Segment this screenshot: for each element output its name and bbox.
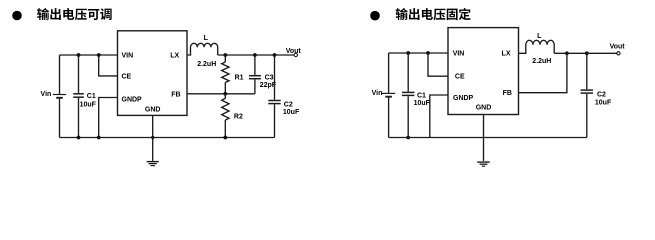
terminal Vout xyxy=(294,53,297,56)
svg-text:LX: LX xyxy=(170,52,179,59)
battery source Vin (right) xyxy=(382,53,395,138)
svg-text:C2: C2 xyxy=(597,91,606,98)
svg-text:GND: GND xyxy=(145,106,161,113)
label C2 xyxy=(284,101,293,108)
label 2.2uH xyxy=(197,61,216,68)
pin label LX xyxy=(170,52,179,59)
pin label GNDP xyxy=(122,97,143,104)
pin label LX (U2) xyxy=(502,50,511,57)
svg-text:L: L xyxy=(204,35,209,42)
ground symbol (right) xyxy=(477,162,490,166)
node: output-R1 junction xyxy=(223,53,227,57)
svg-text:R2: R2 xyxy=(234,114,243,121)
node: VIN-C1 junction xyxy=(77,53,81,57)
node: output-FB junction (right) xyxy=(565,51,569,55)
label L (right) xyxy=(537,33,542,40)
wire: GNDP branch (right) xyxy=(430,95,448,138)
svg-text:Vin: Vin xyxy=(41,91,52,98)
wire: output net to Vout xyxy=(218,54,294,56)
node: VIN-CE junction xyxy=(97,53,101,57)
svg-text:CE: CE xyxy=(455,74,465,81)
capacitor C1 xyxy=(73,55,84,138)
node: output-C2 junction (right) xyxy=(585,51,589,55)
svg-text:2.2uH: 2.2uH xyxy=(197,61,216,68)
wire: GND pin to earth xyxy=(152,115,154,160)
capacitor C3 xyxy=(249,55,261,94)
pin label FB xyxy=(171,91,180,98)
label Vin xyxy=(41,91,52,98)
node: FB-R junction xyxy=(223,92,227,96)
svg-text:LX: LX xyxy=(502,50,511,57)
label C1 (right) xyxy=(417,92,426,99)
svg-text:C1: C1 xyxy=(87,93,96,100)
svg-text:C3: C3 xyxy=(265,74,274,81)
label 10uF (right C1) xyxy=(414,100,431,107)
inductor L xyxy=(187,43,218,55)
svg-text:Vin: Vin xyxy=(372,90,383,97)
svg-text:10uF: 10uF xyxy=(283,109,300,116)
svg-text:L: L xyxy=(537,33,542,40)
svg-text:CE: CE xyxy=(122,74,132,81)
label Vin (right) xyxy=(372,90,383,97)
resistor R1 xyxy=(222,55,229,94)
svg-text:10uF: 10uF xyxy=(80,101,97,108)
pin label VIN (U2) xyxy=(453,50,465,57)
svg-text:Vout: Vout xyxy=(610,43,626,50)
label Vout (right) xyxy=(610,43,626,50)
label 10uF xyxy=(80,101,97,108)
svg-text:Vout: Vout xyxy=(286,48,302,55)
label 22pF xyxy=(260,82,277,89)
wire: GNDP branch xyxy=(99,98,118,138)
IC U1 box xyxy=(118,31,188,116)
right section title: 输出电压固定 xyxy=(396,8,471,20)
pin label VIN xyxy=(122,52,134,59)
node: GNDP-rail junction xyxy=(97,136,101,140)
svg-text:10uF: 10uF xyxy=(595,100,612,107)
label 10uF (C2) xyxy=(283,109,300,116)
svg-text:VIN: VIN xyxy=(122,52,134,59)
battery source Vin xyxy=(53,55,66,138)
label C1 xyxy=(87,93,96,100)
label 10uF (right C2) xyxy=(595,100,612,107)
right section bullet xyxy=(370,11,380,21)
pin label GND (U2) xyxy=(476,104,492,111)
node: VIN-CE junction (right) xyxy=(426,51,430,55)
svg-text:FB: FB xyxy=(503,90,512,97)
capacitor C2 xyxy=(268,55,280,138)
left section title: 输出电压可调 xyxy=(37,8,112,20)
wire: CE branch xyxy=(99,55,118,76)
pin label GNDP (U2) xyxy=(453,95,474,102)
node: C1-rail junction (right) xyxy=(406,136,410,140)
node: C1-rail junction xyxy=(77,136,81,140)
resistor R2 xyxy=(222,94,229,138)
label 2.2uH (right) xyxy=(532,58,551,65)
wire: VIN input rail top (right) xyxy=(389,52,448,54)
pin label FB (U2) xyxy=(503,90,512,97)
pin label CE xyxy=(122,74,132,81)
left section bullet xyxy=(12,11,22,21)
node: VIN-C1 junction (right) xyxy=(406,51,410,55)
capacitor C1 (right) xyxy=(402,53,414,138)
node: GND-rail junction xyxy=(151,136,154,139)
label L xyxy=(204,35,209,42)
capacitor C2 (right) xyxy=(581,53,593,137)
pin label GND xyxy=(145,106,161,113)
pin label CE (U2) xyxy=(455,74,465,81)
svg-text:C1: C1 xyxy=(417,92,426,99)
svg-text:10uF: 10uF xyxy=(414,100,431,107)
wire: ground rail (right) xyxy=(389,137,587,139)
label Vout xyxy=(286,48,302,55)
inductor L (right) xyxy=(519,40,555,53)
svg-text:VIN: VIN xyxy=(453,50,465,57)
wire: ground rail xyxy=(60,137,275,139)
svg-text:GND: GND xyxy=(476,104,492,111)
svg-text:FB: FB xyxy=(171,91,180,98)
svg-text:R1: R1 xyxy=(235,75,244,82)
wire: CE branch (right) xyxy=(428,53,448,76)
svg-text:2.2uH: 2.2uH xyxy=(532,58,551,65)
wire: FB net xyxy=(187,93,255,95)
wire: output net to Vout (right) xyxy=(554,52,617,54)
node: output-C3 junction xyxy=(253,53,257,57)
label R2 xyxy=(234,114,243,121)
terminal Vout (right) xyxy=(617,52,620,55)
ground symbol xyxy=(147,162,159,166)
wire: FB feedback net (right) xyxy=(519,53,567,92)
svg-text:GNDP: GNDP xyxy=(122,97,143,104)
label C2 (right) xyxy=(597,91,606,98)
wire: GND pin to earth (right) xyxy=(483,115,485,162)
label C3 xyxy=(265,74,274,81)
node: R2-rail junction xyxy=(223,136,227,140)
node: output-C2 junction xyxy=(273,53,277,57)
wire: VIN input rail top xyxy=(60,54,118,56)
svg-text:GNDP: GNDP xyxy=(453,95,474,102)
svg-text:C2: C2 xyxy=(284,101,293,108)
IC U2 box xyxy=(448,28,519,115)
label R1 xyxy=(235,75,244,82)
